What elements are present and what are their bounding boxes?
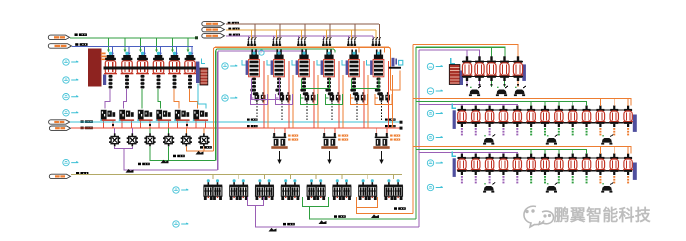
contactor pair under drive 3 bbox=[305, 92, 316, 102]
wire contactor hook drive 4 bbox=[326, 94, 343, 105]
fuse group F5 bbox=[347, 37, 357, 46]
amber bus bbox=[226, 29, 376, 31]
motor starter Q5 bbox=[168, 52, 181, 89]
reference bubble 11 bbox=[427, 134, 433, 140]
blue bus bbox=[72, 46, 193, 48]
contactor pair under drive 2 bbox=[280, 92, 291, 102]
wire red drop drive 2 bbox=[288, 61, 290, 128]
terminal cluster X1 bbox=[100, 110, 115, 121]
green feeder (drive row) bbox=[216, 49, 335, 160]
pot P8 (row3) bbox=[554, 154, 564, 184]
motor unit M1 bbox=[204, 179, 223, 200]
drive U3 bbox=[292, 52, 309, 95]
reference bubble 13 bbox=[427, 184, 433, 190]
wire 3-phase drop to drive 2 bbox=[273, 24, 279, 40]
drive U6 bbox=[367, 52, 384, 95]
pot P4 (row2) bbox=[498, 106, 508, 136]
wire 3-phase drop to drive 1 bbox=[248, 24, 254, 40]
label transformer 3 (orange) bbox=[390, 135, 400, 137]
pedal switch row2-3 bbox=[601, 135, 613, 145]
terminal bar starter row (slate) bbox=[103, 75, 106, 86]
wire stub over pot 12 row2 bbox=[613, 99, 615, 107]
pedal switch row3-3 bbox=[601, 183, 613, 193]
contactor pair under drive 1 bbox=[255, 92, 266, 102]
terminal bar row1 right (slate) bbox=[522, 64, 526, 81]
cable W8 (purple net) bbox=[202, 34, 225, 38]
label cyan bus (mid) bbox=[247, 119, 258, 121]
motor unit M3 bbox=[255, 179, 274, 200]
bracket row2 (cyan) bbox=[452, 103, 456, 108]
wire green drop 2 bbox=[124, 38, 126, 52]
terminal bar row2 left (slate) bbox=[453, 110, 456, 129]
junction dot cluster 1 bbox=[112, 124, 114, 126]
junction dot red bus end bbox=[400, 127, 403, 130]
purple bus bbox=[226, 35, 373, 37]
pot P10 (row3) bbox=[582, 154, 592, 184]
wire red drop drive 6 bbox=[387, 61, 389, 128]
pot P2 (row3) bbox=[471, 154, 481, 184]
wire starter 4 to cluster (colored elbow) bbox=[158, 89, 161, 109]
row3 purple feeder bbox=[419, 153, 517, 154]
label W4 bbox=[81, 127, 93, 130]
motor unit M8 bbox=[384, 179, 403, 200]
reference bubble R1b bbox=[427, 88, 433, 94]
pedal switch row1-1 bbox=[469, 86, 481, 96]
black link bus (starter row) bbox=[104, 66, 200, 69]
wire olive stub M2 bbox=[238, 174, 240, 179]
label green return bbox=[334, 215, 346, 218]
wire stub over pot 5 row2 bbox=[516, 105, 518, 107]
terminal cluster X4 bbox=[156, 110, 171, 121]
wire stub over pot 11 row3 bbox=[599, 147, 601, 155]
wire orange drop drive 2 bbox=[292, 75, 294, 128]
contactor pair under drive 5 bbox=[355, 92, 366, 102]
pot P8 (row2) bbox=[554, 106, 564, 136]
wire olive stub M5 bbox=[315, 174, 317, 179]
motor starter Q2 bbox=[121, 52, 134, 89]
ground blob purple merge bbox=[126, 169, 134, 173]
bracket (cyan) bbox=[202, 59, 206, 64]
wire red drop cluster 1 bbox=[103, 121, 105, 128]
wire stub over pot 13 row3 bbox=[627, 147, 629, 155]
pedal switch row1-3 bbox=[514, 86, 526, 96]
wire stub over pot 9 row3 bbox=[572, 150, 574, 155]
reference bubble 12 bbox=[427, 160, 433, 166]
pedal switch row2-1 bbox=[483, 135, 495, 145]
wire purple group return bbox=[248, 197, 420, 227]
pot P3 (row3) bbox=[485, 154, 495, 184]
pot P6 (row2) bbox=[526, 106, 536, 136]
green bus bbox=[70, 37, 197, 39]
frame riser purple (right) bbox=[418, 50, 420, 227]
brown bus bbox=[226, 23, 379, 25]
wire stub under pot 2 bbox=[479, 81, 481, 87]
fuse holder block (hatched red) bbox=[200, 68, 208, 85]
wire dotted control drop drive 5 bbox=[356, 103, 358, 121]
transformer T2 bbox=[321, 133, 337, 149]
wire olive stub M8 bbox=[393, 174, 395, 179]
wire dotted control drop drive 6 bbox=[381, 103, 383, 121]
pot P12 (row2) bbox=[609, 106, 619, 136]
wire stub over pot 8 row2 bbox=[558, 102, 560, 107]
wire stub over pot 7 row3 bbox=[544, 150, 546, 155]
pot P11 (row2) bbox=[595, 106, 605, 136]
contactor pair under drive 6 bbox=[379, 92, 390, 102]
pot P1 (row3) bbox=[457, 154, 467, 184]
pot P2 (row2) bbox=[471, 106, 481, 136]
pot P3 (row1) bbox=[486, 56, 497, 81]
wire olive stub M1 bbox=[212, 174, 214, 179]
pot P4 (row1) bbox=[499, 56, 510, 81]
contactor K1 bbox=[109, 133, 120, 146]
wire blue drop 3 bbox=[144, 46, 146, 54]
wire feed contactor K5 bbox=[185, 128, 187, 134]
wire orange loop right of drive 6 bbox=[390, 70, 400, 90]
wire starter 2 to cluster (colored elbow) bbox=[124, 89, 127, 109]
pot P1 (row1) bbox=[462, 56, 473, 81]
ground blob purple return bbox=[269, 228, 277, 232]
transformer T3 bbox=[373, 133, 389, 149]
wire stub over pot 1 row3 bbox=[461, 153, 463, 155]
fuse group F2 bbox=[272, 37, 282, 46]
terminal bar row3 left (slate) bbox=[453, 158, 456, 177]
wire orange drop drive 5 bbox=[367, 75, 369, 128]
pot P9 (row3) bbox=[568, 154, 578, 184]
reference bubble R1a bbox=[427, 63, 433, 69]
pot P9 (row2) bbox=[568, 106, 578, 136]
pot P13 (row2) bbox=[623, 106, 633, 136]
wire stub over pot 2 row3 bbox=[475, 153, 477, 155]
wire dotted control drop drive 2 bbox=[281, 103, 283, 121]
wire pair link purple bbox=[252, 79, 280, 100]
wire olive stub M6 bbox=[341, 174, 343, 179]
cable W6 (brown net) bbox=[202, 22, 225, 26]
wire orange drop drive 6 bbox=[392, 75, 394, 128]
terminal bar (blue) bbox=[196, 62, 199, 84]
wire red drop cluster 2 bbox=[121, 121, 123, 128]
pot P7 (row2) bbox=[540, 106, 550, 136]
pot P10 (row2) bbox=[582, 106, 592, 136]
wire green drop 5 bbox=[172, 38, 174, 52]
wire contactor hook drive 5 bbox=[351, 94, 368, 105]
ground blob orange return bbox=[371, 214, 379, 218]
wire feed contactor K2 bbox=[131, 128, 133, 134]
row1 purple feeder bbox=[419, 50, 480, 60]
wire red drop drive 5 bbox=[363, 61, 365, 128]
wire blue drop 2 bbox=[128, 46, 130, 54]
pot P6 (row3) bbox=[526, 154, 536, 184]
pot P13 (row3) bbox=[623, 154, 633, 184]
label orange merge bbox=[200, 146, 212, 149]
fuse group F6 bbox=[372, 37, 382, 46]
orange terminal marks bbox=[101, 53, 106, 55]
wire cyan elbow (terminal bar down) bbox=[198, 84, 206, 109]
wire red drop drive 3 bbox=[313, 61, 315, 128]
orange feeder (drive row) bbox=[214, 47, 391, 151]
wire orange merge (K5,K6) bbox=[186, 146, 213, 151]
pedal switch row2-2 bbox=[546, 135, 558, 145]
contactor K2 bbox=[127, 133, 138, 146]
wire olive stub M7 bbox=[367, 174, 369, 179]
wire 3-phase drop to drive 3 bbox=[298, 24, 304, 40]
cable W1 (feed, green net) bbox=[48, 35, 69, 40]
fuse group F3 bbox=[297, 37, 307, 46]
pins drive 6 bbox=[376, 50, 378, 56]
motor unit M4 bbox=[281, 179, 300, 200]
row1 orange feeder bbox=[413, 45, 518, 60]
red bus bbox=[71, 127, 401, 129]
wire red feed transformer 3 bbox=[375, 128, 377, 135]
label purple merge bbox=[138, 163, 150, 166]
wire orange drop drive 1 bbox=[267, 75, 269, 128]
cyan bus bbox=[70, 121, 401, 123]
olive bus bbox=[71, 173, 402, 175]
motor unit M5 bbox=[307, 179, 326, 200]
pins drive 4 bbox=[326, 50, 328, 56]
frame riser orange (right) bbox=[412, 45, 414, 214]
wire red drop drive 4 bbox=[338, 61, 340, 128]
reference bubble 3 bbox=[63, 94, 69, 100]
bracket row3 (cyan) bbox=[452, 151, 456, 156]
wire contactor hook drive 2 bbox=[276, 94, 293, 105]
arrow down transformer 2 bbox=[329, 151, 331, 160]
wire blue drop 1 bbox=[112, 46, 114, 54]
wire stub over pot 10 row3 bbox=[586, 150, 588, 155]
contactor K6 bbox=[198, 133, 209, 146]
wire 3-phase drop to drive 5 bbox=[348, 24, 354, 40]
reference bubble 10 bbox=[427, 110, 433, 116]
fuse group F1 bbox=[247, 37, 257, 46]
label green merge bbox=[173, 155, 185, 158]
motor starter Q3 bbox=[136, 52, 149, 89]
wire green group return bbox=[303, 197, 417, 219]
pins drive 2 bbox=[276, 50, 278, 56]
terminal cluster X5 bbox=[174, 110, 189, 121]
wire orange drop drive 3 bbox=[317, 75, 319, 128]
terminal bar row1 left (slate) bbox=[460, 71, 463, 86]
label cyan bus (right) bbox=[385, 119, 396, 121]
label transformer 1 (orange) bbox=[288, 135, 298, 137]
pins drive 3 bbox=[301, 50, 303, 56]
cable W7 (amber net) bbox=[202, 27, 225, 31]
pot P5 (row2) bbox=[512, 106, 522, 136]
wire green drop 3 bbox=[140, 38, 142, 52]
wire olive stub M3 bbox=[264, 174, 266, 179]
wire 3-phase drop to drive 4 bbox=[323, 24, 329, 40]
drive U5 bbox=[342, 52, 359, 95]
wire starter 1 to cluster (colored elbow) bbox=[105, 89, 110, 109]
bracket row1 (cyan) bbox=[451, 58, 455, 63]
pot P4 (row3) bbox=[498, 154, 508, 184]
wire stub under pot 4 bbox=[504, 81, 506, 87]
label transformer 2 (orange) bbox=[338, 135, 348, 137]
frame riser green (right) bbox=[415, 47, 417, 219]
wire stub under pot 5 bbox=[517, 81, 519, 87]
wire dotted control drop drive 3 bbox=[306, 103, 308, 121]
watermark logo bbox=[524, 206, 554, 227]
pedal switch row1-2 bbox=[496, 86, 508, 96]
wire stub under pot 1 bbox=[466, 81, 468, 87]
wire stub over pot 10 row2 bbox=[586, 102, 588, 107]
motor starter Q1 bbox=[104, 52, 117, 89]
wire starter 5 to cluster (colored elbow) bbox=[174, 89, 179, 109]
wire stub over pot 4 row3 bbox=[502, 153, 504, 155]
junction dot cyan bus end bbox=[400, 121, 403, 124]
fuse group F4 bbox=[322, 37, 332, 46]
wire stub over pot 2 row2 bbox=[475, 105, 477, 107]
label W1 bbox=[75, 33, 87, 36]
wire red feed transformer 1 bbox=[273, 128, 275, 135]
wire contactor hook drive 1 bbox=[251, 94, 268, 105]
ground blob orange merge bbox=[196, 151, 204, 155]
junction dot green bus end bbox=[195, 36, 198, 39]
pins drive 1 bbox=[251, 50, 253, 56]
junction dot cluster 3 bbox=[149, 124, 151, 126]
pot P7 (row3) bbox=[540, 154, 550, 184]
wire starter 6 to cluster (colored elbow) bbox=[190, 89, 198, 109]
pedal switch row3-2 bbox=[546, 183, 558, 193]
wire contactor hook drive 3 bbox=[301, 94, 318, 105]
wire green drop 1 bbox=[108, 38, 110, 52]
wire stub over pot 13 row2 bbox=[627, 99, 629, 107]
wire stub over pot 3 row2 bbox=[489, 105, 491, 107]
wire starter 3 to cluster (colored elbow) bbox=[141, 89, 143, 109]
wire stub over pot 5 row3 bbox=[516, 153, 518, 155]
label W3 bbox=[81, 120, 93, 123]
terminal group right of drive 6 (slate) bbox=[389, 58, 403, 69]
label W5 bbox=[76, 172, 88, 175]
motor unit M6 bbox=[333, 179, 352, 200]
wire contactor hook drive 6 bbox=[375, 94, 392, 105]
motor unit M2 bbox=[229, 179, 248, 200]
wire feed contactor K6 bbox=[203, 128, 205, 134]
wire pair link green bbox=[352, 79, 380, 89]
row2 purple feeder bbox=[419, 105, 517, 106]
reference bubble 8 bbox=[173, 187, 179, 193]
arrow down transformer 3 bbox=[381, 151, 383, 160]
drive U1 bbox=[242, 52, 259, 95]
wire stub over pot 1 row2 bbox=[461, 105, 463, 107]
distribution block (maroon) bbox=[88, 49, 102, 87]
wire stub over pot 6 row3 bbox=[530, 150, 532, 155]
reference bubble (drive row) bbox=[259, 50, 264, 55]
reference bubble 1 bbox=[63, 59, 69, 65]
wire green drop 4 bbox=[156, 38, 158, 52]
cable W3 (feed, cyan net) bbox=[49, 120, 70, 124]
terminal cluster X6 bbox=[193, 110, 208, 121]
wire red drop cluster 4 bbox=[158, 121, 160, 128]
pot P11 (row3) bbox=[595, 154, 605, 184]
black link row3 bbox=[457, 157, 632, 159]
black link row2 bbox=[457, 109, 632, 111]
terminal cluster X3 bbox=[137, 110, 152, 121]
pot P5 (row1) bbox=[513, 56, 524, 81]
drive U2 bbox=[267, 52, 284, 95]
reference bubble 7 bbox=[222, 95, 228, 101]
wire dotted control drop drive 4 bbox=[331, 103, 333, 121]
cable W5 (feed, olive net) bbox=[49, 174, 70, 178]
wire blue drop 6 bbox=[191, 46, 193, 54]
reference bubble 5 bbox=[63, 159, 69, 165]
wire purple merge (K1,K2) bbox=[115, 146, 218, 170]
svg-text:鹏翼智能科技: 鹏翼智能科技 bbox=[554, 206, 651, 225]
label red bus (mid) bbox=[247, 125, 258, 127]
label orange return bbox=[394, 207, 406, 210]
pins drive 5 bbox=[351, 50, 353, 56]
terminal bar row2 right (slate) bbox=[633, 115, 637, 132]
label purple return bbox=[283, 223, 295, 226]
wire 3-phase drop to drive 6 bbox=[373, 24, 379, 40]
terminal bar row3 right (slate) bbox=[633, 163, 637, 180]
wire stub over pot 9 row2 bbox=[572, 102, 574, 107]
wire stub over pot 4 row2 bbox=[502, 105, 504, 107]
row2 orange feeder bbox=[413, 99, 631, 106]
motor starter Q6 bbox=[184, 52, 197, 89]
contactor K5 bbox=[181, 133, 192, 146]
pedal switch row3-1 bbox=[483, 183, 495, 193]
wire green merge (K3,K4) bbox=[150, 146, 216, 160]
reference bubble 4 bbox=[63, 110, 69, 116]
wire red drop cluster 6 bbox=[195, 121, 197, 128]
wire orange group return bbox=[357, 197, 414, 213]
wire olive stub M4 bbox=[289, 174, 291, 179]
label W6 bbox=[228, 22, 239, 24]
wire stub over pot 12 row3 bbox=[613, 147, 615, 155]
reference bubble 9 bbox=[173, 221, 179, 227]
wire stub under pot 3 bbox=[491, 81, 493, 87]
black link row1 bbox=[462, 61, 523, 63]
junction dot cluster 5 bbox=[186, 124, 188, 126]
wire red drop cluster 3 bbox=[140, 121, 142, 128]
label W8 bbox=[229, 34, 240, 36]
wire stub over pot 7 row2 bbox=[544, 102, 546, 107]
pot P1 (row2) bbox=[457, 106, 467, 136]
wire stub over pot 6 row2 bbox=[530, 102, 532, 107]
wire stub over pot 3 row3 bbox=[489, 153, 491, 155]
label red bus (right) bbox=[385, 125, 396, 127]
wire feed contactor K1 bbox=[114, 128, 116, 134]
reference bubble 6 bbox=[222, 63, 228, 69]
row2 green feeder bbox=[416, 102, 587, 106]
label W2 bbox=[75, 43, 87, 46]
ground blob green merge bbox=[161, 160, 169, 164]
transformer T1 bbox=[271, 133, 287, 149]
wire feed contactor K4 bbox=[168, 128, 170, 134]
contactor K4 bbox=[163, 133, 174, 146]
row3 orange feeder bbox=[413, 147, 631, 154]
wire feed contactor K3 bbox=[149, 128, 151, 134]
motor unit M7 bbox=[358, 179, 377, 200]
label W7 bbox=[228, 28, 239, 30]
wire orange drop drive 4 bbox=[342, 75, 344, 128]
pot P2 (row1) bbox=[474, 56, 485, 81]
wire blue drop 5 bbox=[176, 46, 178, 54]
arrow down transformer 1 bbox=[279, 151, 281, 160]
motor starter Q4 bbox=[152, 52, 165, 89]
fuse holder row1 (hatched red) bbox=[449, 65, 460, 85]
contactor K3 bbox=[144, 133, 155, 146]
cable W2 (feed, blue net) bbox=[48, 44, 71, 49]
row3 green feeder bbox=[416, 150, 587, 154]
ground blob green return bbox=[319, 220, 327, 224]
contactor pair under drive 4 bbox=[330, 92, 341, 102]
terminal cluster X2 bbox=[119, 110, 134, 121]
drive U4 bbox=[317, 52, 334, 95]
wire green drop 6 bbox=[187, 38, 189, 52]
purple feeder (drive row) bbox=[218, 51, 305, 170]
wire blue drop 4 bbox=[160, 46, 162, 54]
cable W4 (feed, red net) bbox=[49, 126, 70, 130]
